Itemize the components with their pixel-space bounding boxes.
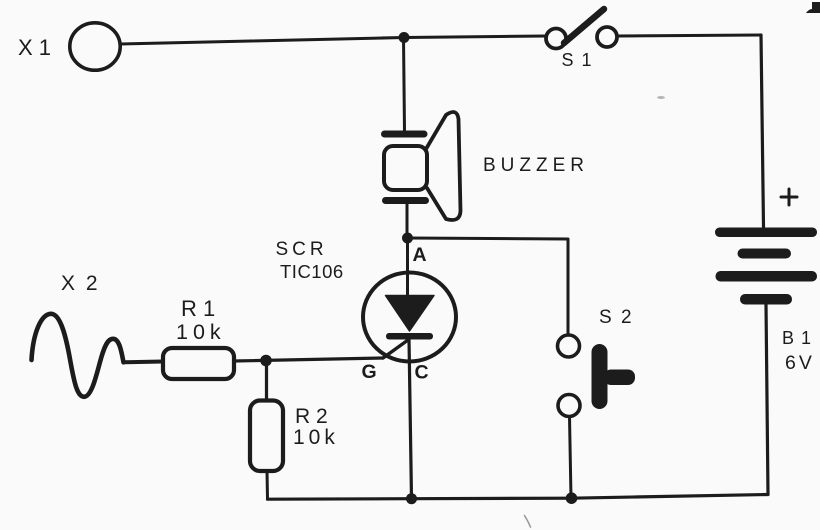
resistor R2 [250, 401, 283, 472]
node bottom S2 junction [566, 492, 578, 504]
resistor R1 [163, 348, 234, 379]
svg-text:R 1: R 1 [181, 296, 215, 321]
switch S1 [546, 9, 617, 49]
svg-text:BUZZER: BUZZER [483, 155, 589, 176]
SCR U1 anode wire [406, 238, 409, 297]
wire junction down to buzzer [404, 38, 405, 132]
svg-text:R 2: R 2 [295, 405, 328, 428]
wire bottom rail [268, 495, 769, 500]
wire junction to R2 [265, 361, 268, 401]
svg-text:A: A [413, 244, 427, 266]
node top junction [399, 32, 410, 43]
wire gate diagonal [383, 340, 408, 358]
node A junction [402, 233, 413, 244]
wire S1 to right corner [617, 35, 761, 36]
stray mark bottom pen stroke [525, 516, 531, 528]
plus sign [781, 189, 797, 205]
stray mark top-right corner [806, 2, 820, 13]
wire cathode down [409, 339, 412, 499]
battery B1 [715, 228, 817, 305]
buzzer BZ1 [381, 112, 461, 220]
svg-text:SCR: SCR [276, 239, 328, 260]
SCR U1 [363, 273, 456, 362]
stray speck [657, 96, 665, 99]
wire node A to S2 [408, 238, 569, 335]
svg-text:X 1: X 1 [18, 35, 51, 60]
node gate junction [260, 355, 272, 367]
wire R1 to gate [234, 358, 383, 361]
wire X1 to S1 [121, 36, 546, 44]
svg-text:G: G [362, 361, 377, 383]
svg-text:10k: 10k [293, 426, 339, 449]
wire buzzer to node A [406, 204, 409, 238]
svg-text:6V: 6V [785, 352, 815, 374]
svg-text:S 2: S 2 [599, 307, 634, 328]
svg-text:TIC106: TIC106 [280, 261, 344, 282]
svg-text:B 1: B 1 [782, 328, 812, 348]
wire X2 to R1 [124, 360, 164, 365]
svg-text:C: C [415, 362, 429, 384]
terminal X1 [70, 23, 120, 70]
svg-text:S 1: S 1 [562, 50, 594, 70]
wire S2 to bottom rail [570, 417, 572, 499]
wire R2 to bottom rail [266, 471, 270, 499]
switch S2 [558, 335, 636, 417]
svg-text:X 2: X 2 [61, 272, 100, 295]
svg-text:10k: 10k [176, 320, 226, 344]
node bottom cathode junction [406, 493, 417, 504]
wire right rail to battery [761, 35, 764, 227]
wire battery to bottom rail [766, 304, 768, 495]
sensor X2 wave [32, 314, 124, 397]
